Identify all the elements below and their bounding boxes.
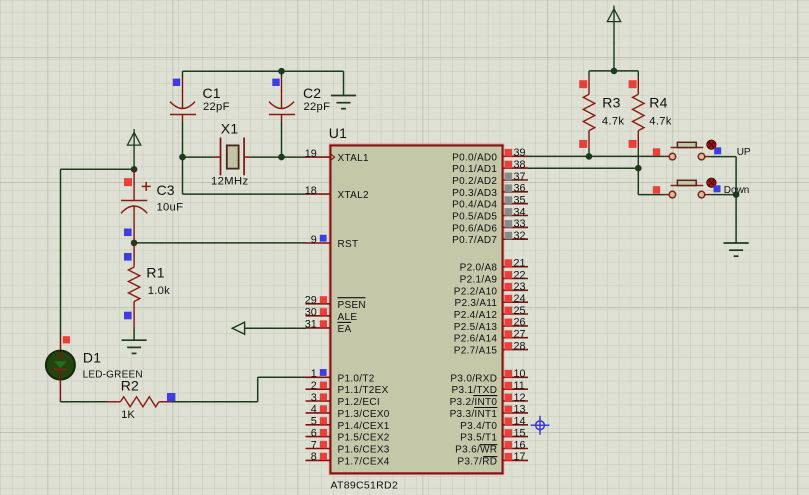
svg-text:C3: C3 <box>157 182 175 198</box>
svg-text:36: 36 <box>514 183 526 195</box>
svg-text:13: 13 <box>514 404 526 416</box>
node junction C2 top <box>278 68 285 75</box>
svg-text:34: 34 <box>514 206 526 218</box>
pin 5 P1.4/CEX1 <box>306 416 390 432</box>
svg-text:2: 2 <box>311 380 317 392</box>
svg-text:P2.2/A10: P2.2/A10 <box>454 286 498 297</box>
node junction R3/P0.0 <box>586 153 593 160</box>
svg-text:21: 21 <box>514 258 526 270</box>
resistor R4 4.7k <box>629 71 672 148</box>
svg-text:P0.7/AD7: P0.7/AD7 <box>452 235 497 246</box>
svg-text:26: 26 <box>514 317 526 329</box>
svg-text:P1.0/T2: P1.0/T2 <box>338 373 375 384</box>
push button Down <box>653 178 750 198</box>
svg-text:D1: D1 <box>83 350 101 366</box>
pin 29 PSEN <box>305 295 366 311</box>
node junction VCC/C3 <box>131 166 138 173</box>
svg-text:7: 7 <box>311 439 317 451</box>
wire R3 to P0.0 net <box>588 147 590 156</box>
crystal X1 <box>211 121 250 188</box>
LED D1 (LED-GREEN) <box>46 336 143 380</box>
pin 26 P2.5/A13 <box>454 317 528 333</box>
wire RST net <box>134 242 306 244</box>
wire P0.1 to R4 node <box>528 167 638 169</box>
svg-text:4: 4 <box>311 404 317 416</box>
svg-text:P2.3/A11: P2.3/A11 <box>454 298 497 309</box>
svg-text:10: 10 <box>514 368 526 380</box>
svg-text:30: 30 <box>305 307 317 319</box>
pin 3 P1.2/ECI <box>306 392 380 408</box>
pin 4 P1.3/CEX0 <box>306 404 390 420</box>
svg-text:14: 14 <box>514 416 526 428</box>
wire UP button to Down net <box>705 157 736 195</box>
svg-text:P1.4/CEX1: P1.4/CEX1 <box>338 421 390 432</box>
node junction R4/P0.1 <box>635 165 642 172</box>
svg-text:1K: 1K <box>121 409 135 421</box>
pin 38 P0.1/AD1 <box>452 159 528 175</box>
svg-text:P3.2/INT0: P3.2/INT0 <box>450 397 498 408</box>
svg-text:23: 23 <box>514 281 526 293</box>
pin 35 P0.4/AD4 <box>452 195 528 211</box>
wire R4 to P0.1 net <box>637 147 639 168</box>
pin 13 P3.3/INT1 <box>450 404 528 420</box>
svg-text:P2.6/A14: P2.6/A14 <box>454 334 498 345</box>
svg-text:24: 24 <box>514 293 526 305</box>
svg-text:P1.6/CEX3: P1.6/CEX3 <box>338 445 390 456</box>
svg-text:37: 37 <box>514 171 526 183</box>
wire C1 bottom to crystal node <box>182 122 184 157</box>
wire C2 bottom to XTAL1 net <box>281 122 283 157</box>
pin 7 P1.6/CEX3 <box>306 439 390 455</box>
pin 32 P0.7/AD7 <box>452 230 528 246</box>
wire R1 to ground <box>133 327 135 340</box>
wire crystal left to C1 node <box>183 156 214 158</box>
svg-text:P1.5/CEX2: P1.5/CEX2 <box>338 433 390 444</box>
svg-text:UP: UP <box>737 147 751 158</box>
pin 28 P2.7/A15 <box>454 340 528 356</box>
svg-text:P0.2/AD2: P0.2/AD2 <box>452 176 497 187</box>
svg-text:C1: C1 <box>203 85 221 101</box>
svg-text:P0.1/AD1: P0.1/AD1 <box>452 164 497 175</box>
power arrow VCC right <box>607 6 620 71</box>
wire P0.1 node down to Down button <box>638 168 669 194</box>
pin 11 P3.1/TXD <box>452 380 528 396</box>
svg-text:25: 25 <box>514 305 526 317</box>
svg-text:P1.2/ECI: P1.2/ECI <box>338 397 380 408</box>
svg-text:38: 38 <box>514 159 526 171</box>
resistor R2 <box>107 377 175 421</box>
svg-text:P2.1/A9: P2.1/A9 <box>460 275 498 286</box>
wire top rail C1-C2-ground <box>183 70 344 72</box>
svg-text:12: 12 <box>514 392 526 404</box>
wire R2 to P1.0 pin <box>172 377 306 402</box>
node junction C1/XTAL2 <box>179 154 186 161</box>
svg-text:17: 17 <box>514 451 526 463</box>
svg-text:R4: R4 <box>649 95 667 111</box>
pin 1 P1.0/T2 <box>306 368 375 384</box>
pin 39 P0.0/AD0 <box>452 147 528 163</box>
pin 24 P2.3/A11 <box>454 293 528 309</box>
svg-text:RST: RST <box>338 239 359 250</box>
pin 36 P0.3/AD3 <box>452 183 528 199</box>
svg-text:P3.1/TXD: P3.1/TXD <box>452 385 498 396</box>
svg-text:P1.1/T2EX: P1.1/T2EX <box>338 385 389 396</box>
pin 15 P3.5/T1 <box>460 427 528 443</box>
pin 18 XTAL2 <box>305 185 369 201</box>
node junction VCC/R3R4 <box>611 68 618 75</box>
ground top (oscillator) <box>331 71 356 109</box>
svg-text:P1.7/CEX4: P1.7/CEX4 <box>338 456 390 467</box>
wire EA arrow to pin 31 <box>245 327 306 329</box>
pin 10 P3.0/RXD <box>450 368 528 384</box>
node junction C2/XTAL1 <box>278 154 285 161</box>
svg-text:18: 18 <box>305 185 317 197</box>
capacitor C3 (10uF electrolytic) <box>121 169 183 243</box>
svg-text:P2.4/A12: P2.4/A12 <box>454 310 498 321</box>
push button UP <box>653 140 751 160</box>
resistor R1 <box>124 243 170 327</box>
svg-text:16: 16 <box>514 439 526 451</box>
wire Down button right <box>705 194 736 196</box>
pin 9 RST <box>306 234 359 250</box>
svg-text:XTAL2: XTAL2 <box>338 190 369 201</box>
svg-text:4.7k: 4.7k <box>602 116 624 128</box>
svg-text:5: 5 <box>311 416 317 428</box>
svg-text:P2.5/A13: P2.5/A13 <box>454 322 498 333</box>
pin 17 P3.7/RD <box>457 451 528 467</box>
wire crystal right to XTAL1 pin <box>250 156 305 158</box>
capacitor C2 <box>269 71 330 122</box>
pin 8 P1.7/CEX4 <box>306 451 390 467</box>
op-chip U1 AT89C51RD2 body <box>329 125 503 492</box>
pin 12 P3.2/INT0 <box>450 392 528 408</box>
pin 31 EA <box>305 319 352 335</box>
svg-text:9: 9 <box>311 234 317 246</box>
pin 27 P2.6/A14 <box>454 329 528 345</box>
node junction buttons/ground <box>733 191 740 198</box>
svg-text:33: 33 <box>514 218 526 230</box>
svg-text:C2: C2 <box>303 85 321 101</box>
svg-text:3: 3 <box>311 392 317 404</box>
svg-text:P1.3/CEX0: P1.3/CEX0 <box>338 409 390 420</box>
svg-text:X1: X1 <box>221 121 239 137</box>
svg-text:R3: R3 <box>602 95 620 111</box>
ground below R1 <box>122 340 147 353</box>
svg-text:1.0k: 1.0k <box>148 285 170 297</box>
wire buttons to ground <box>735 195 737 243</box>
svg-text:P0.3/AD3: P0.3/AD3 <box>452 188 497 199</box>
power arrow VCC left <box>127 129 140 169</box>
svg-text:P0.4/AD4: P0.4/AD4 <box>452 200 497 211</box>
svg-text:22: 22 <box>514 269 526 281</box>
ground bottom right <box>724 243 749 256</box>
svg-text:29: 29 <box>305 295 317 307</box>
svg-text:R2: R2 <box>121 377 139 393</box>
svg-text:39: 39 <box>514 147 526 159</box>
svg-text:12MHz: 12MHz <box>211 176 248 188</box>
svg-text:27: 27 <box>514 329 526 341</box>
svg-text:P0.0/AD0: P0.0/AD0 <box>452 152 497 163</box>
pin 37 P0.2/AD2 <box>452 171 528 187</box>
wire P0.0 to UP button <box>528 155 669 157</box>
svg-text:6: 6 <box>311 427 317 439</box>
resistor R3 4.7k <box>579 71 624 148</box>
svg-text:P3.0/RXD: P3.0/RXD <box>450 373 497 384</box>
wire LED to R2 <box>60 380 107 402</box>
wire VCC rail to left <box>61 169 135 337</box>
svg-text:AT89C51RD2: AT89C51RD2 <box>331 480 399 492</box>
svg-text:PSEN: PSEN <box>338 300 366 311</box>
pin 6 P1.5/CEX2 <box>306 427 390 443</box>
svg-text:P3.7/RD: P3.7/RD <box>457 456 497 467</box>
svg-text:19: 19 <box>305 148 317 160</box>
svg-text:22pF: 22pF <box>304 101 331 113</box>
svg-text:P2.7/A15: P2.7/A15 <box>454 346 498 357</box>
svg-text:ALE: ALE <box>338 312 358 323</box>
pin 21 P2.0/A8 <box>460 258 528 274</box>
pin 30 ALE <box>305 307 358 323</box>
svg-text:1: 1 <box>311 368 317 380</box>
svg-text:8: 8 <box>311 451 317 463</box>
svg-text:31: 31 <box>305 319 317 331</box>
svg-text:P3.6/WR: P3.6/WR <box>455 445 497 456</box>
pin 19 XTAL1 <box>305 148 369 164</box>
svg-text:32: 32 <box>514 230 526 242</box>
pin 25 P2.4/A12 <box>454 305 528 321</box>
svg-text:22pF: 22pF <box>203 101 230 113</box>
svg-text:P3.5/T1: P3.5/T1 <box>460 433 497 444</box>
pin 2 P1.1/T2EX <box>306 380 389 396</box>
svg-text:XTAL1: XTAL1 <box>338 153 369 164</box>
pin 34 P0.5/AD5 <box>452 206 528 222</box>
svg-text:U1: U1 <box>329 125 347 141</box>
svg-text:4.7k: 4.7k <box>649 116 671 128</box>
svg-text:P0.6/AD6: P0.6/AD6 <box>452 223 497 234</box>
svg-text:35: 35 <box>514 195 526 207</box>
pin 23 P2.2/A10 <box>454 281 528 297</box>
capacitor C1 <box>170 71 230 122</box>
EA input arrow <box>232 322 244 334</box>
wire R3-R4 top rail <box>589 70 638 72</box>
svg-text:28: 28 <box>514 340 526 352</box>
pin 33 P0.6/AD6 <box>452 218 528 234</box>
svg-text:10uF: 10uF <box>157 202 184 214</box>
pin 16 P3.6/WR <box>455 439 528 455</box>
svg-text:R1: R1 <box>146 264 164 280</box>
svg-text:EA: EA <box>338 324 352 335</box>
svg-text:11: 11 <box>514 380 525 392</box>
wire XTAL2 net <box>183 157 306 194</box>
origin crosshair marker <box>531 416 550 435</box>
svg-text:P3.3/INT1: P3.3/INT1 <box>450 409 498 420</box>
svg-text:P2.0/A8: P2.0/A8 <box>460 263 498 274</box>
svg-text:P0.5/AD5: P0.5/AD5 <box>452 212 497 223</box>
pin 14 P3.4/T0 <box>460 416 528 432</box>
svg-text:P3.4/T0: P3.4/T0 <box>460 421 497 432</box>
pin 22 P2.1/A9 <box>460 269 528 285</box>
node junction C3/RST <box>131 240 138 247</box>
svg-text:15: 15 <box>514 427 526 439</box>
